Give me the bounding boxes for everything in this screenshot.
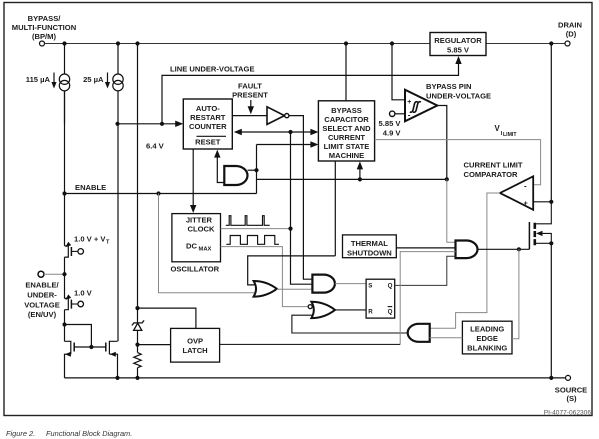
label current limit comparator — [464, 161, 523, 180]
wire resistor to source rail — [137, 368, 139, 378]
wire OR2 bottom input from LEB and — [292, 315, 408, 333]
wire line under-voltage horizontal — [162, 62, 459, 124]
transistor mirror right Q5 — [106, 341, 118, 378]
node dot 25uA/counter — [115, 122, 119, 126]
svg-text:5.85 V: 5.85 V — [379, 119, 402, 128]
wire between transistors — [64, 257, 66, 298]
current source I2 25uA — [108, 44, 124, 124]
wire gate drive output — [478, 248, 530, 250]
wire OR2 output to latch R — [335, 309, 366, 311]
wire OVP top sense — [138, 308, 196, 328]
svg-text:CURRENT LIMIT: CURRENT LIMIT — [464, 161, 523, 170]
svg-text:SELECT AND: SELECT AND — [322, 124, 371, 133]
svg-text:LINE UNDER-VOLTAGE: LINE UNDER-VOLTAGE — [170, 65, 255, 74]
svg-text:(EN/UV): (EN/UV) — [28, 310, 57, 319]
svg-text:BYPASS/: BYPASS/ — [28, 14, 62, 23]
svg-text:JITTER: JITTER — [186, 216, 213, 225]
pin reference input circle — [390, 111, 395, 116]
body diode arrow — [536, 231, 543, 236]
wire current limit comparator output to LEB and gate — [430, 193, 500, 328]
svg-text:FAULT: FAULT — [238, 82, 262, 91]
svg-text:Functional Block Diagram.: Functional Block Diagram. — [46, 429, 132, 438]
svg-text:MAX: MAX — [199, 247, 212, 253]
hysteresis symbol — [410, 102, 418, 113]
svg-text:MACHINE: MACHINE — [329, 151, 364, 160]
block SR latch U14 — [366, 279, 395, 318]
wire comparator plus to drain — [533, 201, 551, 203]
svg-text:4.9 V: 4.9 V — [383, 129, 402, 138]
wire fault/enable rail to comparator node — [257, 178, 447, 180]
svg-text:COUNTER: COUNTER — [189, 122, 227, 131]
svg-text:115 µA: 115 µA — [26, 75, 51, 84]
wire gate sense into LEB right side — [512, 249, 519, 338]
wire 6.4V OVP line from top rail down to zener — [137, 44, 139, 324]
wire clock vertical — [291, 132, 313, 284]
wire OVP latch output up to driver AND — [400, 252, 455, 345]
wire arrow into regulator bottom — [455, 56, 461, 64]
wire top rail regulator to drain — [486, 43, 565, 45]
block thermal shutdown U8 — [343, 235, 397, 258]
bubble OR2 inverted input — [308, 305, 312, 309]
pin SOURCE — [566, 375, 571, 380]
svg-text:LIMIT: LIMIT — [503, 132, 517, 138]
svg-text:(BP/M): (BP/M) — [32, 32, 57, 41]
waveform dcmax — [226, 236, 279, 245]
inverter U2 — [267, 107, 285, 125]
block auto-restart counter U1 — [183, 99, 232, 149]
svg-text:VOLTAGE: VOLTAGE — [24, 301, 60, 310]
svg-text:LATCH: LATCH — [183, 346, 208, 355]
wire bypass-uv output down to rail — [437, 106, 447, 180]
svg-text:UNDER-VOLTAGE: UNDER-VOLTAGE — [426, 92, 491, 101]
pin BP/M — [40, 41, 45, 46]
wire latch Q to driver AND — [395, 256, 456, 285]
svg-text:OSCILLATOR: OSCILLATOR — [171, 265, 220, 274]
wire zener to ovp node — [137, 330, 139, 352]
wire rail node down to driver AND top input — [447, 179, 456, 242]
wire clock output — [221, 228, 291, 230]
wire enable branch down to OR1 — [159, 194, 255, 293]
wire v-ilimit from state machine to comparator minus — [375, 140, 541, 185]
wire inverter net to AND2 top input — [303, 256, 312, 279]
node DRAIN pin — [558, 21, 582, 39]
gate OR1 U11 — [254, 281, 277, 297]
resistor R1 — [134, 353, 141, 368]
svg-text:LIMIT STATE: LIMIT STATE — [324, 142, 370, 151]
svg-text:6.4 V: 6.4 V — [146, 142, 165, 151]
svg-text:DC: DC — [186, 242, 197, 251]
wire LEB output to LEB-AND input — [430, 337, 463, 339]
current source I1 115uA — [54, 44, 70, 124]
svg-text:V: V — [495, 124, 501, 133]
svg-text:ENABLE: ENABLE — [75, 183, 106, 192]
svg-text:ENABLE/: ENABLE/ — [25, 281, 59, 290]
wire counter input from 25uA node — [118, 123, 178, 125]
svg-text:REGULATOR: REGULATOR — [434, 36, 482, 45]
wire state machine top to rail — [345, 44, 347, 101]
svg-text:(S): (S) — [566, 394, 577, 403]
wire fault present arrow — [250, 100, 252, 108]
node BP/M pin labels — [12, 14, 76, 41]
svg-text:CAPACITOR: CAPACITOR — [324, 115, 369, 124]
svg-text:OVP: OVP — [187, 337, 203, 346]
svg-text:5.85 V: 5.85 V — [447, 46, 470, 55]
svg-text:SHUTDOWN: SHUTDOWN — [347, 249, 392, 258]
block bypass capacitor select / current limit state machine U4 — [318, 101, 374, 161]
node dot line-uv/counter — [160, 122, 164, 126]
node dot fault-and output — [254, 168, 258, 172]
svg-text:R: R — [368, 308, 373, 315]
svg-text:AUTO-: AUTO- — [196, 104, 220, 113]
node dot clock bus — [288, 130, 292, 134]
wire top rail BP/M to regulator — [45, 43, 431, 45]
wire fault AND output stub — [248, 169, 257, 171]
svg-text:DRAIN: DRAIN — [558, 21, 582, 30]
transistor power MOSFET Q1 — [529, 202, 551, 250]
gate fault AND U3 — [224, 166, 247, 185]
wire drain vertical — [550, 44, 552, 202]
wire arrow up into state machine bottom — [359, 168, 361, 180]
wire ovp node to OVP latch input — [138, 344, 171, 346]
wire source rail — [65, 377, 566, 379]
svg-text:CURRENT: CURRENT — [328, 133, 365, 142]
svg-text:S: S — [368, 283, 372, 290]
wire mosfet source down to source rail — [550, 243, 552, 378]
gate AND2 set U12 — [312, 275, 335, 293]
svg-text:COMPARATOR: COMPARATOR — [464, 170, 519, 179]
svg-text:LEADING: LEADING — [470, 325, 504, 334]
svg-text:1.0 V + V: 1.0 V + V — [74, 235, 106, 244]
svg-text:PRESENT: PRESENT — [232, 91, 268, 100]
node dot rail to bypass-uv output — [445, 177, 449, 181]
label FAULT PRESENT — [232, 82, 268, 100]
wire 115uA line down to enable node — [64, 91, 66, 194]
svg-text:1.0 V: 1.0 V — [74, 289, 93, 298]
diode zener 6.4V D1 — [132, 320, 144, 325]
block regulator U5 — [430, 33, 486, 56]
wire bypass-uv plus input from rail — [392, 44, 405, 100]
svg-text:(D): (D) — [566, 30, 577, 39]
svg-text:-: - — [524, 181, 527, 190]
wire 25uA line down to mirror — [117, 124, 119, 341]
svg-text:T: T — [106, 240, 110, 246]
node junction dots on top rail — [62, 41, 553, 45]
wire fault line to OR1 top input — [248, 256, 336, 285]
svg-text:UNDER-: UNDER- — [27, 291, 57, 300]
block oscillator U10 — [172, 214, 221, 262]
waveform clock pulses — [226, 216, 270, 226]
svg-text:RESTART: RESTART — [190, 113, 226, 122]
wire counter to inverter — [232, 115, 267, 117]
label EN/UV — [24, 281, 60, 320]
wire state machine bottom output — [334, 161, 336, 256]
wire counter/state-machine bus with both arrows — [236, 131, 314, 133]
svg-text:MULTI-FUNCTION: MULTI-FUNCTION — [12, 23, 76, 32]
comparator bypass-uv U6 — [405, 90, 437, 122]
svg-text:+: + — [524, 200, 528, 207]
transistor mirror left Q4 — [65, 341, 75, 378]
svg-text:BLANKING: BLANKING — [467, 344, 507, 353]
wire inverter output to vertical — [289, 116, 303, 256]
wire reset arrow from AND input side — [217, 156, 224, 183]
wire dcmax output to OR2 bubble — [221, 247, 309, 307]
wire OR1 output to AND2 — [277, 288, 313, 290]
svg-text:PI-4077-062306: PI-4077-062306 — [544, 410, 592, 417]
svg-text:25 µA: 25 µA — [83, 75, 104, 84]
transistor under-voltage sense Q3 — [65, 298, 78, 309]
gate LEB AND left-facing U15 — [408, 324, 430, 342]
svg-text:RESET: RESET — [195, 138, 221, 147]
block leading edge blanking U16 — [462, 321, 512, 354]
comparator current limit U7 — [500, 176, 533, 210]
wire AND2 output to latch S — [335, 283, 366, 285]
svg-text:Figure 2.: Figure 2. — [6, 429, 35, 438]
node dot state machine bottom feed — [358, 177, 362, 181]
wire fault-and out to state machine second input — [257, 144, 315, 146]
wire fault-and output vertical — [256, 145, 258, 194]
svg-text:Q: Q — [388, 283, 393, 290]
gate driver AND U9 — [456, 241, 478, 259]
label bypass pin under-voltage — [426, 82, 491, 101]
wire thermal shutdown to driver and — [396, 247, 455, 249]
svg-text:Q: Q — [388, 308, 393, 315]
svg-text:BYPASS PIN: BYPASS PIN — [426, 82, 471, 91]
node dot enable left — [62, 191, 66, 195]
svg-text:BYPASS: BYPASS — [331, 106, 362, 115]
node dot enable branch — [156, 191, 160, 195]
block OVP latch U17 — [171, 328, 220, 362]
wire counter to oscillator arrow — [192, 149, 194, 206]
svg-text:CLOCK: CLOCK — [188, 225, 216, 234]
transistor enable sense Q2 — [65, 194, 78, 258]
wire enable rail — [65, 193, 257, 195]
pin EN/UV — [38, 271, 44, 277]
svg-text:+: + — [407, 99, 411, 106]
gate OR2 reset U13 — [311, 302, 335, 318]
wire mirror gate link — [65, 325, 106, 348]
svg-text:EDGE: EDGE — [476, 334, 498, 343]
wire down to mirror — [64, 310, 66, 342]
svg-text:THERMAL: THERMAL — [351, 239, 388, 248]
